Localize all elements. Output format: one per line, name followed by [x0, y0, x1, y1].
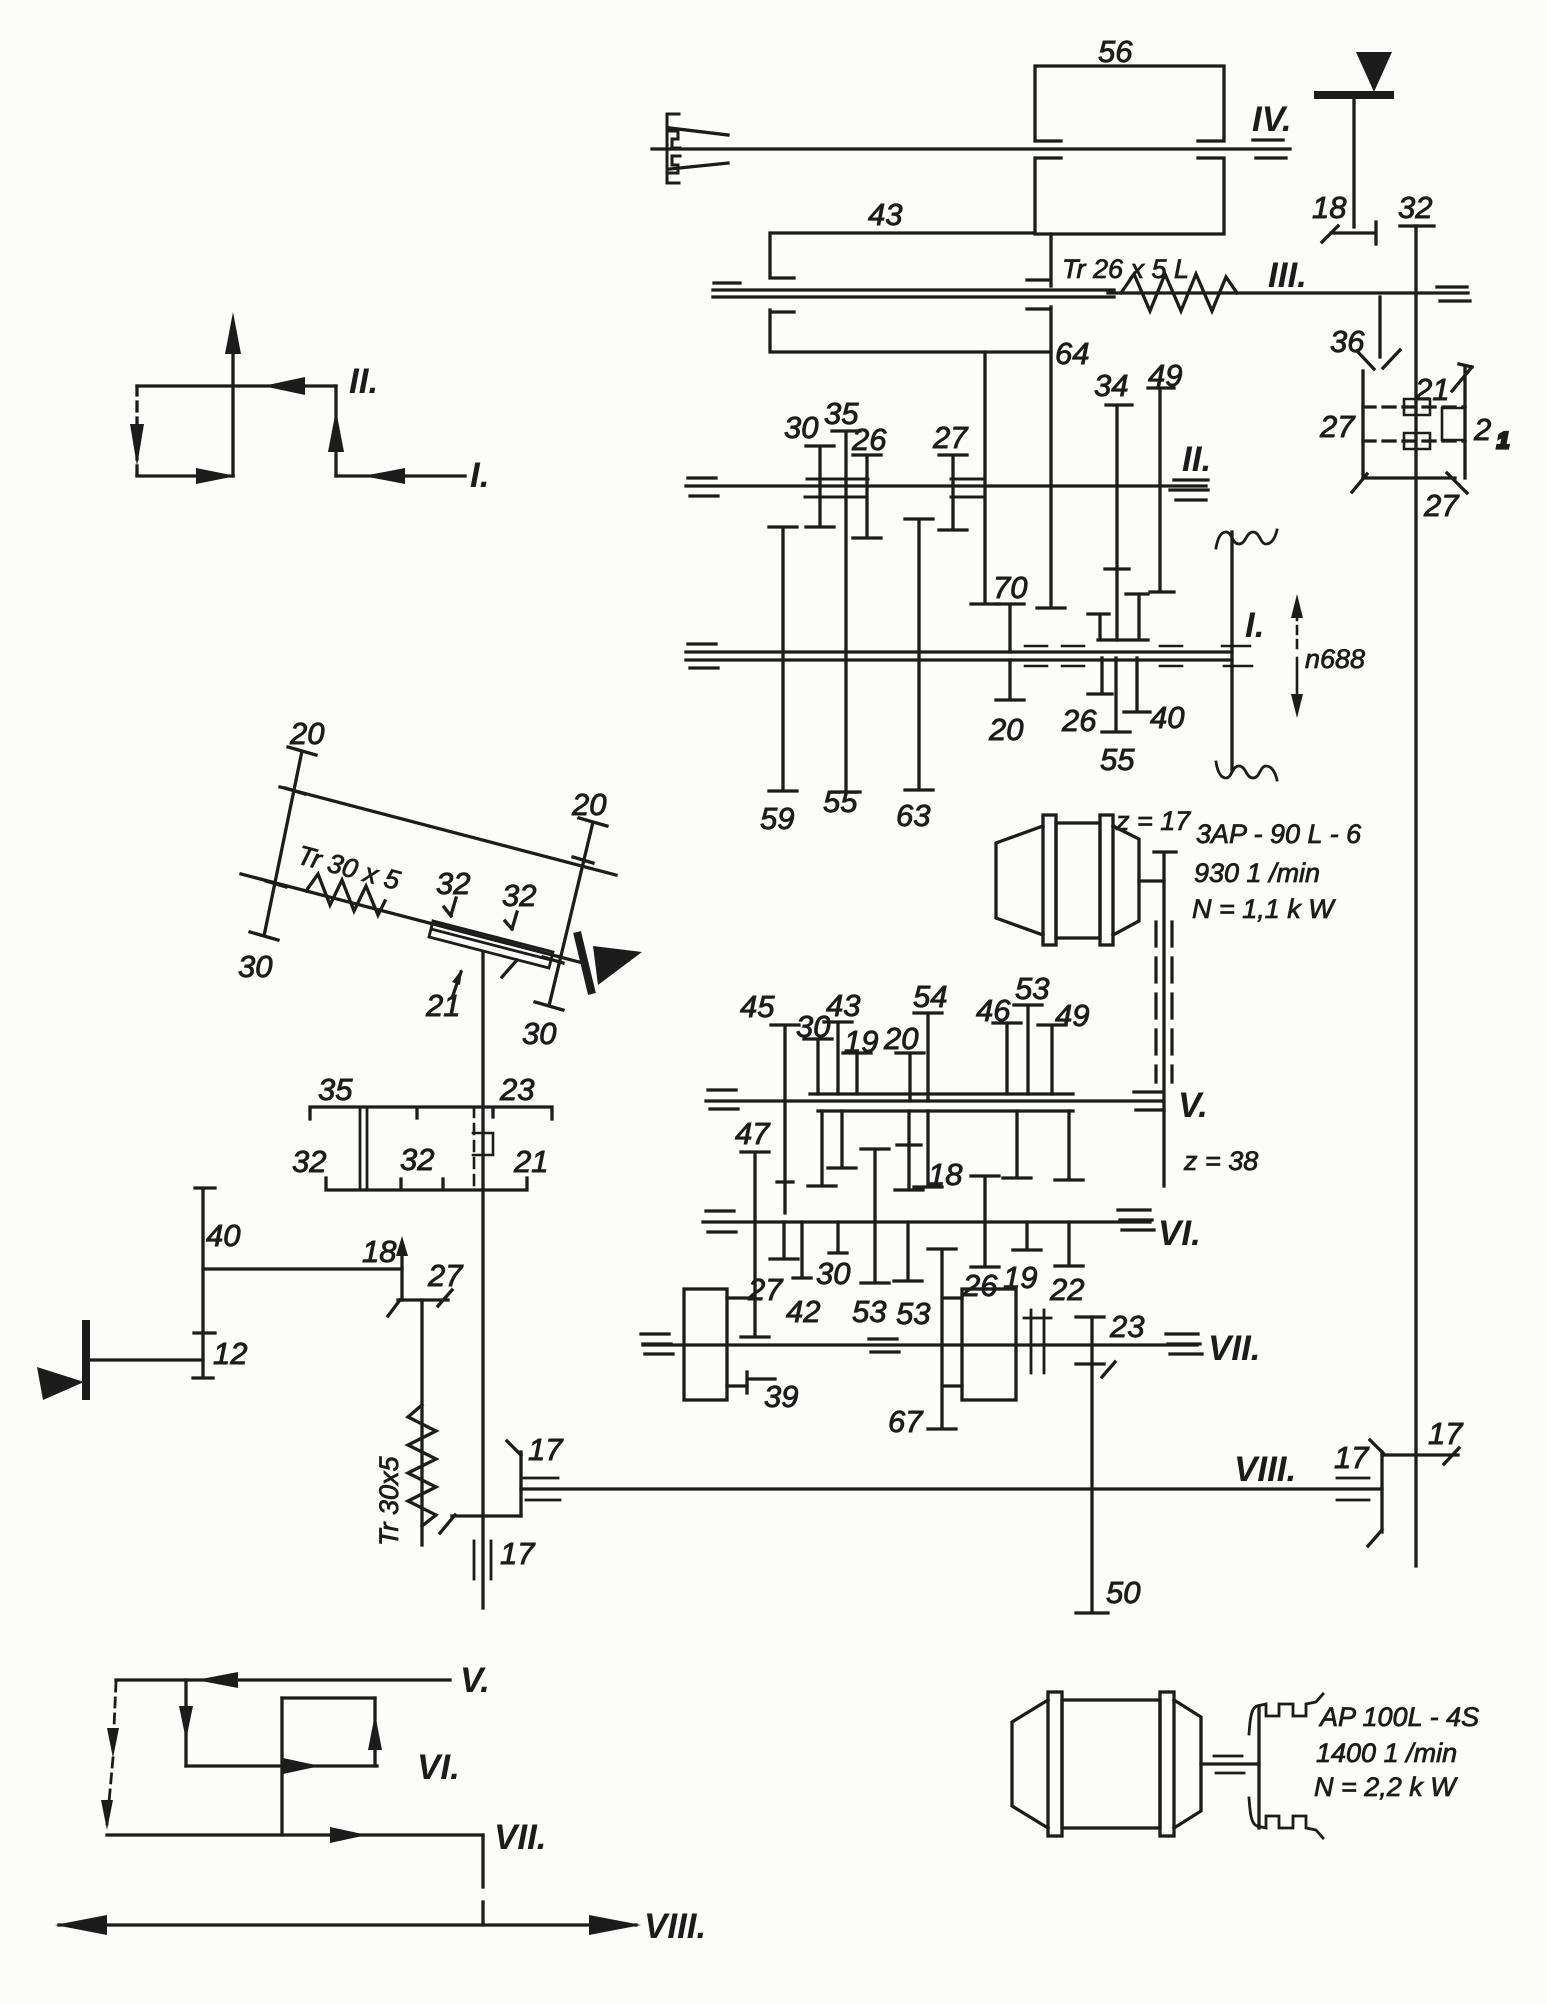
gear 55 lower — [1102, 658, 1130, 732]
chuck cone lines — [670, 128, 728, 135]
svg-text:27: 27 — [1319, 409, 1356, 444]
wire center vertical up — [231, 352, 234, 476]
svg-text:40: 40 — [206, 1218, 240, 1253]
motor band left — [1043, 815, 1056, 945]
svg-text:39: 39 — [764, 1379, 798, 1414]
pulley arm — [1230, 532, 1233, 770]
n688 arrow down — [1296, 658, 1299, 708]
svg-text:55: 55 — [823, 784, 858, 819]
motor band left — [1048, 1692, 1062, 1836]
bearing shaft IV right — [1253, 138, 1283, 141]
svg-text:63: 63 — [896, 798, 930, 833]
lower inclined screw — [241, 874, 583, 963]
shaft I double line — [686, 650, 1232, 653]
svg-text:VI.: VI. — [1158, 1214, 1201, 1253]
gear 53 on V — [1014, 1005, 1042, 1094]
pulley belt bottom — [1249, 1798, 1323, 1838]
handle crossbar — [82, 1324, 90, 1396]
gear 40 lower — [1124, 658, 1150, 712]
bearing shaft III right — [1437, 285, 1467, 288]
svg-text:27: 27 — [747, 1272, 784, 1307]
pulley belt top — [1249, 1694, 1323, 1734]
gear 18 bracket with arrow — [1322, 222, 1376, 244]
bearing V right — [1134, 1090, 1162, 1093]
gear 23 on VII — [1076, 1317, 1115, 1377]
svg-text:z = 38: z = 38 — [1183, 1146, 1258, 1176]
wire VIII horizontal — [59, 1923, 636, 1926]
svg-text:64: 64 — [1055, 336, 1089, 371]
gear 20 on I — [996, 660, 1024, 700]
shaft VIII — [521, 1487, 1382, 1490]
n688 dashed arrow up — [1296, 604, 1299, 648]
gear 30 on V — [804, 1039, 832, 1094]
gear 30 mate below II — [806, 486, 834, 527]
arrow down on dashed — [130, 424, 144, 466]
gear line 20-30 right — [535, 818, 607, 1010]
svg-text:N = 2,2 k W: N = 2,2 k W — [1314, 1772, 1458, 1802]
gear 27 mate below II — [939, 486, 967, 530]
arrow left on V — [196, 1672, 238, 1688]
box bottom — [1363, 476, 1455, 479]
arrow up on box right — [368, 1714, 382, 1750]
box left wire — [280, 1698, 283, 1835]
worm box left — [684, 1289, 727, 1400]
svg-text:67: 67 — [888, 1404, 924, 1439]
lever shaft vertical — [193, 1188, 215, 1378]
svg-text:V.: V. — [1178, 1086, 1208, 1125]
svg-text:I.: I. — [470, 456, 489, 495]
svg-text:1: 1 — [1497, 428, 1509, 453]
box right wire — [373, 1698, 376, 1766]
bearing marks — [1214, 1756, 1244, 1773]
svg-text:43: 43 — [826, 988, 860, 1023]
gear 50 line — [1076, 1317, 1108, 1613]
screw shaft vertical — [420, 1300, 423, 1545]
svg-text:43: 43 — [868, 197, 902, 232]
svg-text:50: 50 — [1106, 1575, 1140, 1610]
handle stem — [1352, 99, 1355, 227]
svg-text:49: 49 — [1148, 358, 1182, 393]
gear 43 box upper — [770, 233, 1051, 286]
gear 56 box lower — [1035, 158, 1224, 234]
box right wall — [1463, 367, 1466, 478]
svg-text:20: 20 — [883, 1021, 918, 1056]
svg-text:30: 30 — [784, 410, 818, 445]
svg-text:17: 17 — [528, 1432, 564, 1467]
gear 26 line — [971, 1176, 999, 1267]
pulley arm vertical — [1257, 1706, 1260, 1828]
gear 47 / 27-39 line — [741, 1152, 769, 1337]
svg-text:III.: III. — [1268, 256, 1307, 295]
arrow 32 left — [444, 898, 456, 916]
motor shaft stub — [1139, 879, 1164, 882]
arrow down dashed b — [101, 1800, 113, 1830]
sprocket bar z=17 — [1154, 850, 1176, 853]
shaft V — [706, 1099, 1162, 1102]
clutch dashed line — [473, 1107, 476, 1190]
svg-text:32: 32 — [436, 866, 470, 901]
motor body — [1062, 1700, 1160, 1828]
gear 39 bracket — [747, 1372, 775, 1393]
bearing VII right — [1166, 1334, 1202, 1354]
idler gear 53 line — [861, 1149, 889, 1283]
clutch sleeve box — [429, 921, 553, 968]
svg-text:Tr 26 x 5 L: Tr 26 x 5 L — [1062, 254, 1189, 284]
wire left dashed drop — [135, 386, 138, 476]
gear 59 line — [769, 527, 797, 791]
arrow right end VIII — [589, 1915, 641, 1935]
thrust marks on vertical shaft — [474, 1541, 491, 1579]
gear 30 on II — [806, 446, 834, 486]
svg-text:N = 1,1 k W: N = 1,1 k W — [1192, 894, 1336, 924]
svg-text:35: 35 — [318, 1072, 353, 1107]
bearing VIII left — [524, 1478, 560, 1500]
handle horizontal shaft — [90, 1358, 203, 1361]
gear 53 second — [894, 1222, 922, 1281]
sliding gear line 64a — [971, 352, 999, 604]
screw zigzag — [306, 874, 385, 915]
gear 43 on V — [824, 1022, 852, 1094]
svg-text:27: 27 — [1423, 488, 1460, 523]
shaft III double line — [713, 288, 1114, 291]
bevel 17 right bar — [1382, 1448, 1459, 1464]
dashed clutch line upper — [1363, 405, 1465, 408]
svg-text:VI.: VI. — [417, 1748, 460, 1787]
svg-text:30: 30 — [238, 949, 272, 984]
dashed clutch line lower — [1363, 439, 1465, 442]
gear line 20-30 left — [250, 747, 316, 940]
svg-text:VII.: VII. — [494, 1818, 547, 1857]
arrow left on II — [263, 377, 305, 395]
arrow 21 — [452, 972, 461, 998]
sleeve line above V — [810, 1092, 1073, 1095]
wire VI horizontal — [186, 1764, 377, 1767]
gear 20 on V — [896, 1053, 924, 1101]
gearbox top bar — [310, 1107, 552, 1119]
svg-text:VIII.: VIII. — [644, 1907, 706, 1946]
leadscrew zigzag Tr26x5L — [1121, 274, 1237, 311]
gear 35 on II — [832, 431, 860, 486]
gear 54 mate below V — [914, 1111, 942, 1187]
gear 26 mate below II — [853, 486, 881, 538]
worm box right — [962, 1289, 1016, 1400]
gear 19 below VI — [1013, 1222, 1041, 1250]
motor right cap — [1113, 826, 1139, 935]
svg-text:n688: n688 — [1305, 644, 1365, 674]
svg-text:20: 20 — [571, 787, 606, 822]
gear 49 line — [1148, 388, 1174, 592]
shaft VI — [703, 1220, 1150, 1223]
svg-text:32: 32 — [400, 1142, 434, 1177]
clutch dog upper — [1404, 399, 1430, 415]
wire VII horizontal — [107, 1833, 483, 1836]
chain dashed left — [1154, 922, 1157, 1082]
gear 55 line — [832, 486, 860, 792]
arrow down on V-VI — [179, 1706, 193, 1740]
clutch on VII — [1024, 1310, 1051, 1373]
pulley bearing at shaft — [1222, 646, 1252, 666]
gear mate bracket d — [1055, 1111, 1083, 1180]
motor left cap — [996, 826, 1043, 935]
svg-text:27: 27 — [427, 1258, 464, 1293]
gear 36 stem — [1378, 297, 1381, 357]
svg-text:AP 100L - 4S: AP 100L - 4S — [1318, 1702, 1479, 1732]
wire V horizontal — [116, 1678, 450, 1681]
vertical feed shaft (long) — [1414, 226, 1417, 1566]
gear 26 lower — [1088, 658, 1112, 694]
vertical connecting shaft — [481, 953, 484, 1608]
svg-text:55: 55 — [1100, 742, 1135, 777]
motor band right — [1100, 815, 1113, 945]
svg-text:18: 18 — [1312, 190, 1347, 225]
corner bevel diagonals — [1352, 364, 1472, 493]
svg-text:32: 32 — [1398, 190, 1432, 225]
shaft III right section — [1108, 291, 1468, 294]
wire bottom-left horizontal — [137, 474, 233, 477]
svg-text:VII.: VII. — [1208, 1329, 1261, 1368]
chain shaft vertical — [1162, 853, 1165, 1186]
handle crossbar inclined — [578, 936, 591, 990]
svg-text:56: 56 — [1098, 34, 1133, 69]
svg-text:930 1 /min: 930 1 /min — [1194, 858, 1320, 888]
gear mate bracket a — [808, 1111, 836, 1186]
tick under box right — [502, 960, 517, 977]
arrow down dashed a — [107, 1728, 119, 1758]
gear 63 line — [905, 519, 933, 790]
svg-text:17: 17 — [1428, 1416, 1464, 1451]
svg-text:18: 18 — [928, 1157, 963, 1192]
wire right vertical — [334, 386, 337, 476]
svg-text:34: 34 — [1094, 368, 1128, 403]
wire II horizontal — [137, 384, 336, 387]
motor band right — [1160, 1692, 1174, 1836]
svg-text:53: 53 — [1015, 971, 1049, 1006]
gear 18 arrow — [400, 1248, 403, 1300]
worm box left stubs — [727, 1298, 754, 1386]
wire vertical V-VI — [184, 1680, 187, 1766]
svg-text:21: 21 — [425, 988, 460, 1023]
motor shaft stub — [1201, 1762, 1259, 1765]
svg-text:26: 26 — [851, 422, 887, 457]
gear 67 line — [928, 1249, 962, 1429]
lever horizontal link — [203, 1267, 402, 1270]
gear 40 bar — [194, 1331, 215, 1334]
gear 18 between V-VI — [895, 1111, 923, 1190]
motor body — [1056, 823, 1100, 938]
handle knob triangle — [593, 946, 642, 985]
handle crossbar — [1318, 91, 1390, 99]
bearing I left — [688, 642, 716, 645]
gear 36 bevel marks — [1357, 350, 1400, 369]
shaft II — [686, 484, 1206, 487]
arrow left on bottom-right — [363, 468, 405, 484]
svg-text:45: 45 — [740, 989, 775, 1024]
svg-text:3AP - 90 L - 6: 3AP - 90 L - 6 — [1196, 819, 1362, 849]
arrow up on right vertical — [328, 410, 344, 452]
gear mate bracket b — [828, 1111, 856, 1168]
svg-text:42: 42 — [786, 1294, 820, 1329]
motor right cap — [1174, 1700, 1201, 1828]
svg-text:II.: II. — [1182, 440, 1211, 479]
svg-text:17: 17 — [1334, 1440, 1370, 1475]
gear 27 below VI — [770, 1222, 798, 1259]
svg-text:20: 20 — [988, 712, 1023, 747]
gear 64 line — [1037, 352, 1065, 608]
sleeve line below V — [818, 1109, 1073, 1112]
bevel 17 left vertical — [507, 1441, 521, 1516]
pulley belt bottom — [1216, 762, 1277, 780]
svg-text:23: 23 — [1109, 1309, 1144, 1344]
bearing V left — [708, 1088, 736, 1091]
svg-text:IV.: IV. — [1252, 100, 1292, 139]
bevel 17 right vertical — [1368, 1440, 1383, 1546]
svg-text:53: 53 — [852, 1294, 886, 1329]
gear 32 bar — [1400, 224, 1434, 227]
shaft VII — [643, 1343, 1197, 1346]
gearbox bottom bar — [326, 1178, 527, 1190]
bearing VII left — [641, 1334, 673, 1354]
arrow right on VII — [330, 1827, 367, 1843]
arrow right on VI — [283, 1758, 320, 1774]
gear 56 box upper — [1035, 66, 1224, 141]
gear 54 on V — [914, 1013, 942, 1101]
svg-text:21: 21 — [513, 1144, 548, 1179]
svg-text:22: 22 — [1049, 1272, 1084, 1307]
arrow right on bottom-left — [196, 468, 236, 484]
svg-text:54: 54 — [913, 979, 947, 1014]
bevel 17 left bar — [440, 1515, 521, 1533]
svg-text:32: 32 — [502, 878, 536, 913]
svg-text:30: 30 — [816, 1256, 850, 1291]
wire VII-VIII vertical — [481, 1835, 484, 1925]
svg-text:Tr 30x5: Tr 30x5 — [374, 1455, 404, 1546]
bearing VI left — [706, 1209, 734, 1212]
bearing VII mid — [869, 1339, 899, 1352]
svg-text:40: 40 — [1150, 700, 1184, 735]
svg-text:59: 59 — [760, 801, 794, 836]
svg-text:V.: V. — [460, 1661, 490, 1700]
svg-text:z = 17: z = 17 — [1115, 806, 1191, 836]
svg-text:19: 19 — [844, 1024, 878, 1059]
handle knob triangle — [1356, 52, 1392, 92]
svg-text:17: 17 — [500, 1536, 536, 1571]
bearing II left — [688, 476, 716, 479]
upper inclined shaft — [280, 787, 616, 875]
bearing II right — [1170, 480, 1208, 500]
screw zigzag — [408, 1405, 436, 1526]
bearing VIII right — [1337, 1478, 1369, 1500]
gear 43 box lower — [770, 307, 1051, 352]
pulley belt top — [1216, 530, 1277, 548]
gear 70 on I — [996, 604, 1024, 652]
box left wall — [1361, 371, 1364, 478]
sliding gear 26-40 bracket on I — [1088, 594, 1148, 640]
clutch dog square — [473, 1133, 493, 1155]
svg-text:2: 2 — [1473, 412, 1491, 447]
svg-text:1400 1 /min: 1400 1 /min — [1316, 1738, 1457, 1768]
svg-text:23: 23 — [499, 1072, 534, 1107]
svg-text:70: 70 — [993, 570, 1027, 605]
dashed drop from V — [107, 1682, 116, 1824]
svg-text:47: 47 — [735, 1116, 771, 1151]
gear 49 on V — [1038, 1025, 1066, 1094]
gear 19 on V — [843, 1053, 871, 1094]
svg-text:II.: II. — [349, 362, 378, 401]
handle knob triangle — [37, 1367, 84, 1400]
clutch dog right wall — [1442, 408, 1463, 440]
gear 42 bracket — [793, 1222, 847, 1278]
bearing VI right — [1118, 1210, 1154, 1230]
arrow left end VIII — [55, 1915, 107, 1935]
mesh lines 32-32 — [360, 1107, 367, 1190]
gear 26 on II — [853, 455, 881, 486]
svg-text:26: 26 — [1061, 703, 1097, 738]
svg-text:VIII.: VIII. — [1234, 1450, 1296, 1489]
svg-text:21: 21 — [1414, 372, 1449, 407]
arrow up tip — [225, 312, 241, 354]
bearing shaft III left — [714, 281, 740, 284]
chuck body — [667, 114, 680, 183]
box top wire — [282, 1696, 375, 1699]
chain dashed right — [1170, 922, 1173, 1082]
svg-text:32: 32 — [292, 1144, 326, 1179]
svg-text:18: 18 — [362, 1234, 397, 1269]
gear sleeve bars on II — [805, 479, 985, 497]
gear 27 on II — [939, 455, 967, 486]
svg-text:26: 26 — [962, 1268, 998, 1303]
shaft I break marks — [1025, 646, 1182, 666]
gear 46 on V — [993, 1023, 1021, 1094]
arrow 32 right — [505, 912, 517, 929]
svg-text:46: 46 — [976, 993, 1011, 1028]
gear 27 bracket — [388, 1290, 452, 1316]
svg-text:27: 27 — [932, 420, 969, 455]
svg-text:30: 30 — [522, 1016, 556, 1051]
svg-text:49: 49 — [1055, 998, 1089, 1033]
svg-text:20: 20 — [289, 716, 324, 751]
svg-text:53: 53 — [896, 1296, 930, 1331]
motor left cap — [1012, 1700, 1048, 1828]
gear 22 below VI — [1055, 1222, 1083, 1266]
clutch dog lower — [1404, 433, 1430, 449]
wire bottom-right horizontal — [336, 474, 465, 477]
gear 45 line — [771, 1025, 799, 1213]
svg-text:I.: I. — [1245, 606, 1264, 645]
shaft IV — [652, 147, 1290, 150]
gear 34 line — [1105, 405, 1132, 640]
svg-text:12: 12 — [213, 1336, 247, 1371]
gear mate bracket c — [1003, 1111, 1031, 1178]
svg-text:36: 36 — [1330, 324, 1365, 359]
